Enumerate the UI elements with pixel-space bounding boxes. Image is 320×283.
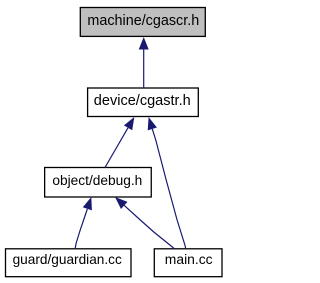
edge main.cc -> object/debug.h <box>115 197 175 249</box>
node machine/cgascr.h (highlighted) <box>80 8 205 37</box>
node guard/guardian.cc <box>6 249 132 277</box>
edge guard/guardian.cc -> object/debug.h <box>75 197 92 249</box>
svg-text:guard/guardian.cc: guard/guardian.cc <box>13 251 122 267</box>
edge main.cc -> device/cgastr.h <box>148 117 186 249</box>
edge object/debug.h -> device/cgastr.h <box>105 117 134 168</box>
svg-text:object/debug.h: object/debug.h <box>52 172 142 188</box>
svg-text:machine/cgascr.h: machine/cgascr.h <box>87 13 199 29</box>
svg-text:device/cgastr.h: device/cgastr.h <box>94 93 191 109</box>
node main.cc <box>154 249 222 277</box>
node device/cgastr.h <box>88 88 199 117</box>
node object/debug.h <box>45 168 152 198</box>
svg-text:main.cc: main.cc <box>165 251 213 267</box>
edge device/cgastr.h -> machine/cgascr.h <box>139 37 149 88</box>
